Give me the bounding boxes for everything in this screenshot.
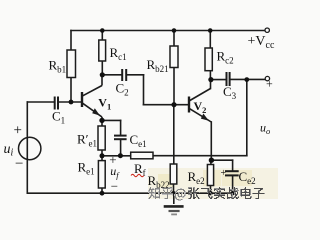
svg-text:+: + bbox=[14, 123, 22, 139]
svg-text:+: + bbox=[266, 77, 273, 91]
svg-text:−: − bbox=[111, 179, 118, 194]
svg-text:−: − bbox=[15, 156, 23, 172]
svg-text:+: + bbox=[109, 152, 116, 167]
svg-text:+: + bbox=[221, 168, 227, 179]
